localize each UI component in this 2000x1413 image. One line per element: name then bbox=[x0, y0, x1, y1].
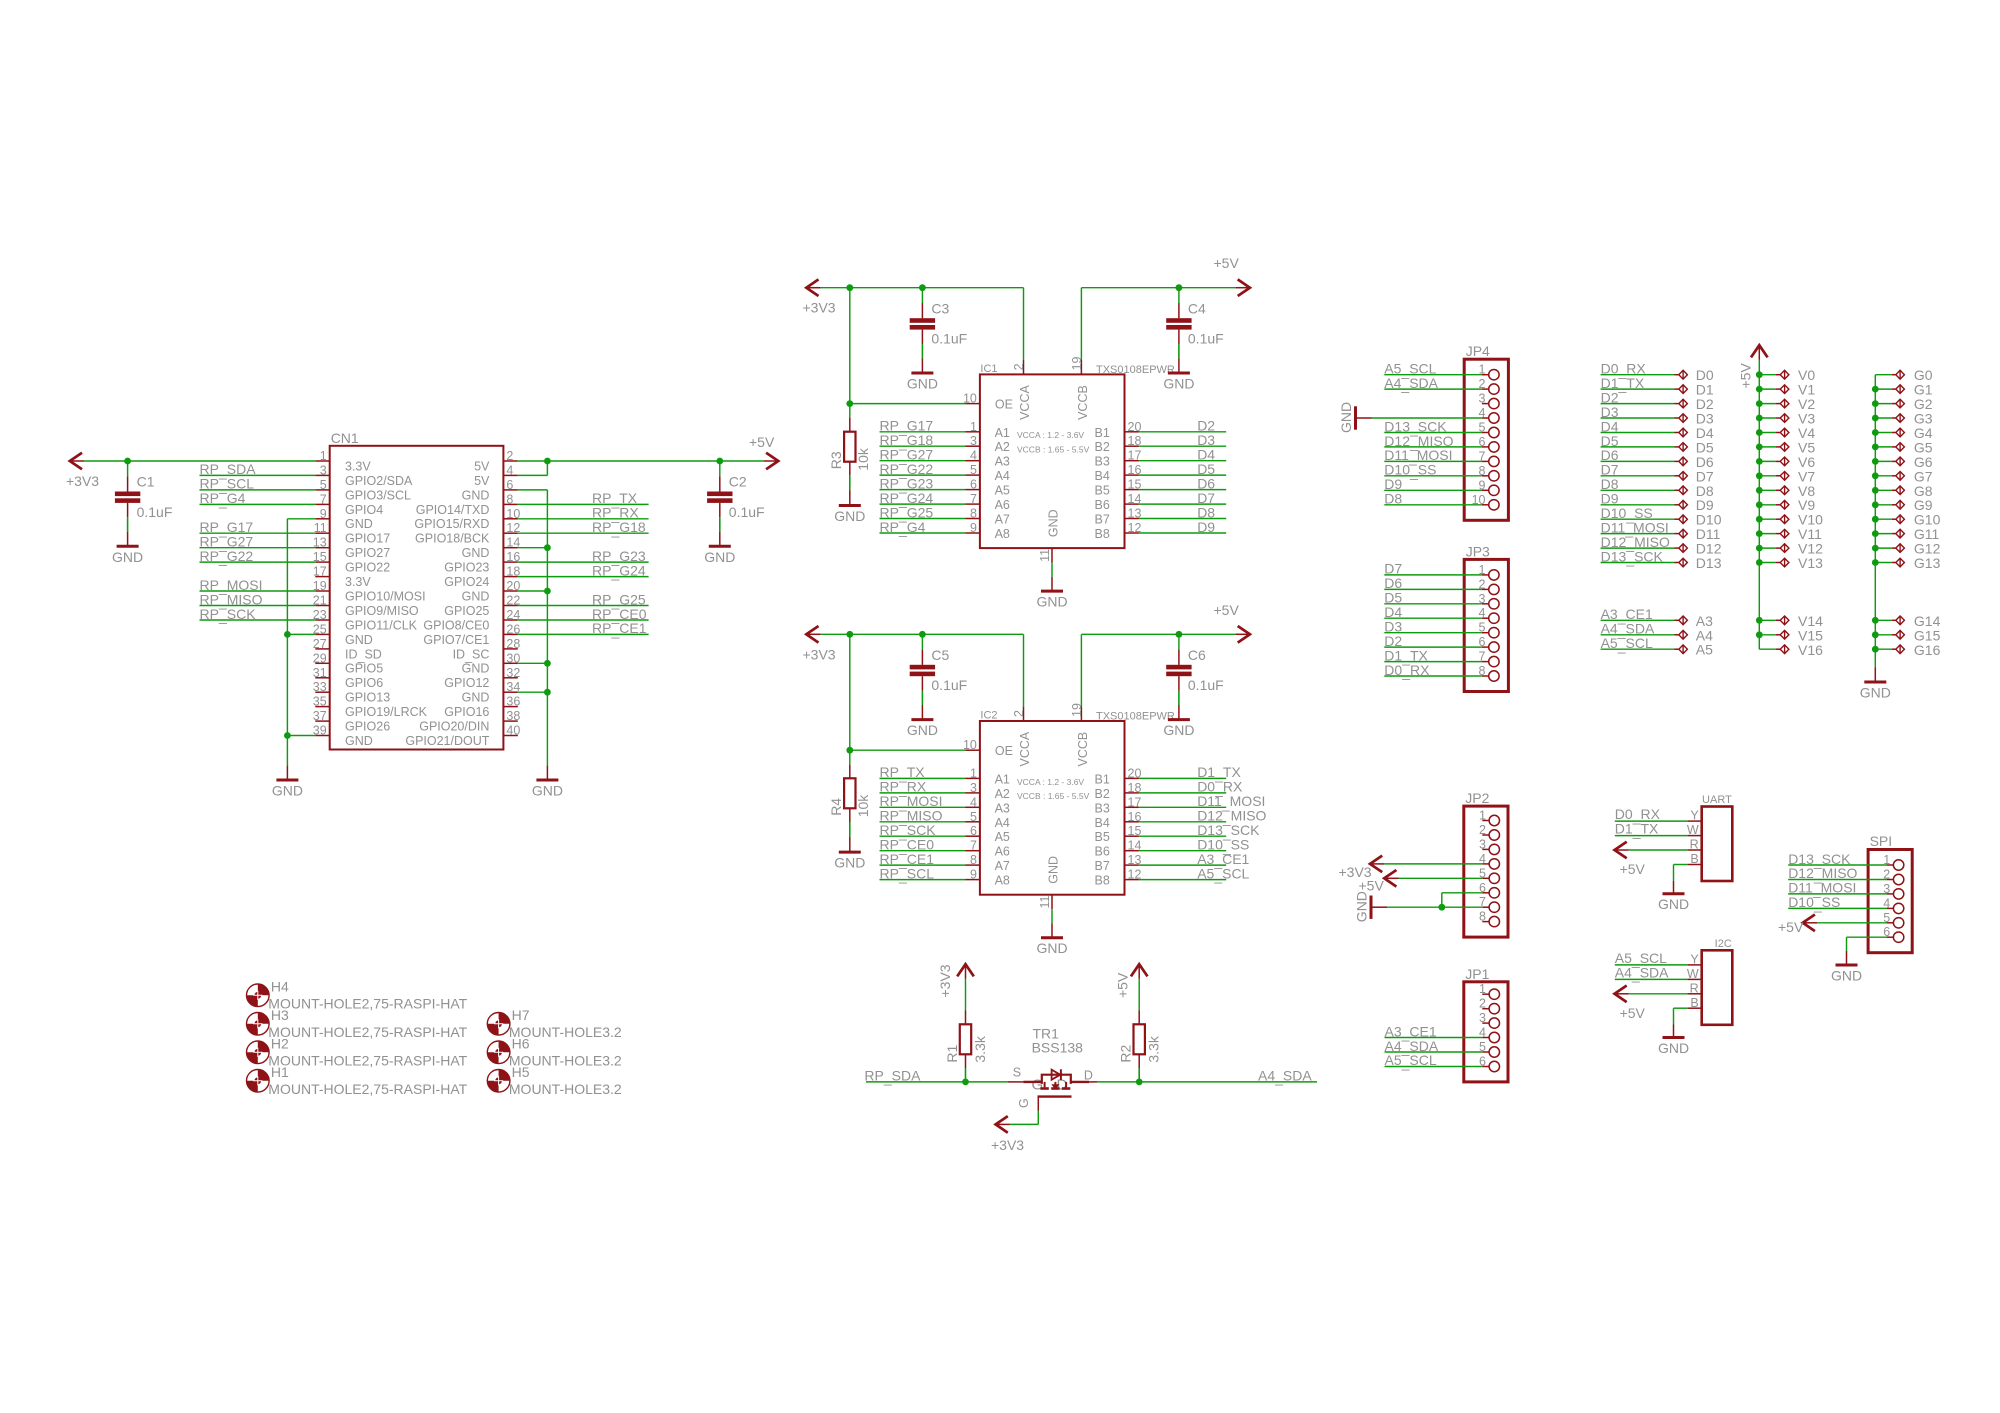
net label RP_G24 wire to IC1 pin A6 bbox=[880, 490, 966, 508]
wire right GND trunk CN1 pins 6 14 20 30 34 bbox=[518, 490, 548, 780]
svg-text:11: 11 bbox=[1038, 895, 1052, 908]
svg-text:GND: GND bbox=[1163, 722, 1194, 738]
net label D10_SS wire from IC2 pin B6 bbox=[1139, 837, 1249, 855]
svg-text:A1: A1 bbox=[995, 426, 1010, 440]
svg-text:Y: Y bbox=[1690, 809, 1699, 823]
net label D9 wire from IC1 pin B8 bbox=[1139, 519, 1226, 535]
svg-text:GND: GND bbox=[272, 783, 303, 799]
net label D3 wire to JP3 pin 5 bbox=[1384, 619, 1482, 635]
power +5V arrow to I2C pin R bbox=[1615, 986, 1688, 1021]
svg-text:29: 29 bbox=[313, 651, 327, 665]
capacitor C4 0.1uF bbox=[1166, 288, 1224, 373]
svg-text:+5V: +5V bbox=[1214, 602, 1240, 618]
net label D10_SS wire to JP4 pin 8 bbox=[1384, 462, 1482, 480]
svg-text:W: W bbox=[1687, 967, 1699, 981]
pin G7 bbox=[1872, 468, 1933, 484]
net label D9 wire to JP4 pin 9 bbox=[1384, 476, 1482, 492]
mount hole H6 bbox=[487, 1036, 622, 1069]
svg-text:C5: C5 bbox=[931, 647, 949, 663]
net label D0_RX to pin D0 bbox=[1601, 361, 1714, 384]
junction CN1 pin 34 bbox=[544, 689, 551, 696]
net label A4_SDA to pin A4 bbox=[1601, 621, 1714, 644]
net label D11_MOSI wire to SPI pin 3 bbox=[1788, 880, 1886, 898]
svg-text:D10_SS: D10_SS bbox=[1788, 894, 1840, 912]
svg-text:GND: GND bbox=[907, 722, 938, 738]
svg-text:SPI: SPI bbox=[1870, 833, 1893, 849]
wire +5V rail to IC2 pin 19 VCCB bbox=[1081, 634, 1235, 706]
svg-text:A7: A7 bbox=[995, 513, 1010, 527]
power +3V3 arrow above R1 bbox=[937, 964, 974, 997]
wire +5V rail to IC1 pin 19 VCCB bbox=[1081, 288, 1235, 360]
pin V4 bbox=[1756, 425, 1815, 441]
svg-text:GPIO21/DOUT: GPIO21/DOUT bbox=[405, 734, 489, 748]
svg-text:35: 35 bbox=[313, 695, 327, 709]
svg-text:GND: GND bbox=[462, 488, 490, 502]
ground GND at JP4 pin 4 bbox=[1338, 402, 1372, 433]
svg-text:27: 27 bbox=[313, 637, 327, 651]
svg-text:6: 6 bbox=[506, 478, 513, 492]
net label D3 wire from IC1 pin B2 bbox=[1139, 432, 1226, 448]
svg-text:C2: C2 bbox=[729, 474, 747, 490]
pin G1 bbox=[1872, 382, 1933, 398]
net label D7 wire to JP3 pin 1 bbox=[1384, 561, 1482, 577]
svg-text:38: 38 bbox=[506, 709, 520, 723]
junction cap on +5V rail bbox=[1176, 284, 1183, 291]
junction A4_SDA at R2 bbox=[1136, 1079, 1143, 1086]
pin G11 bbox=[1872, 526, 1940, 542]
svg-text:0.1uF: 0.1uF bbox=[931, 677, 967, 693]
svg-text:G: G bbox=[1017, 1098, 1031, 1108]
svg-text:GPIO20/DIN: GPIO20/DIN bbox=[419, 720, 489, 734]
net label RP_MISO wire to CN1 pin 21 bbox=[200, 591, 316, 609]
pin V11 bbox=[1756, 526, 1822, 542]
wire +5V to SPI pin 5 bbox=[1817, 922, 1887, 924]
net label D4 wire to JP3 pin 4 bbox=[1384, 604, 1482, 620]
svg-text:GPIO14/TXD: GPIO14/TXD bbox=[416, 503, 490, 517]
svg-text:GPIO12: GPIO12 bbox=[444, 676, 489, 690]
svg-text:1: 1 bbox=[970, 420, 977, 434]
wire +5V to JP2 pin 5 bbox=[1399, 877, 1483, 879]
svg-text:B3: B3 bbox=[1095, 801, 1110, 815]
ground GND below R4 bbox=[834, 852, 865, 871]
svg-text:S: S bbox=[1013, 1065, 1021, 1079]
net label A3_CE1 wire from IC2 pin B7 bbox=[1139, 851, 1250, 869]
power +3V3 arrow at TR1 gate bbox=[991, 1116, 1024, 1153]
pin G2 bbox=[1872, 396, 1933, 412]
svg-text:H4: H4 bbox=[271, 979, 289, 995]
svg-text:A2: A2 bbox=[995, 440, 1010, 454]
net label D1_TX wire from IC2 pin B1 bbox=[1139, 764, 1242, 782]
pin V13 bbox=[1756, 555, 1823, 571]
svg-text:D13_SCK: D13_SCK bbox=[1601, 548, 1664, 566]
svg-text:VCCA: VCCA bbox=[1018, 731, 1032, 766]
resistor R3 10k pull-up on OE bbox=[828, 432, 871, 506]
junction CN1 pin 4 riser bbox=[544, 458, 551, 465]
net label D10_SS to pin D10 bbox=[1601, 505, 1722, 528]
net label D11_MOSI to pin D11 bbox=[1601, 519, 1721, 542]
pin G15 bbox=[1872, 627, 1941, 643]
svg-text:3: 3 bbox=[1479, 837, 1486, 851]
svg-text:TXS0108EPWR: TXS0108EPWR bbox=[1096, 711, 1175, 723]
power +3V3 arrow left of IC1 rail bbox=[803, 279, 836, 315]
wire JP4 pin 4 to GND bbox=[1372, 417, 1482, 419]
net label D6 wire from IC1 pin B5 bbox=[1139, 475, 1226, 491]
junction JP2 GND branch bbox=[1438, 904, 1445, 911]
svg-text:GND: GND bbox=[112, 549, 143, 565]
svg-text:GPIO6: GPIO6 bbox=[345, 676, 383, 690]
net label D12_MISO wire to JP4 pin 6 bbox=[1384, 433, 1482, 451]
net label RP_MOSI wire to CN1 pin 19 bbox=[200, 577, 316, 595]
svg-text:C4: C4 bbox=[1188, 300, 1206, 316]
svg-text:0.1uF: 0.1uF bbox=[137, 504, 173, 520]
svg-text:+3V3: +3V3 bbox=[803, 300, 836, 316]
mount hole H2 bbox=[246, 1036, 467, 1069]
svg-text:8: 8 bbox=[1479, 910, 1486, 924]
svg-text:RP_G24: RP_G24 bbox=[592, 562, 646, 580]
pin G16 bbox=[1872, 642, 1941, 658]
junction cap on +3V3 rail bbox=[919, 284, 926, 291]
net label A5_SCL wire from IC2 pin B8 bbox=[1139, 865, 1250, 883]
svg-text:GPIO8/CE0: GPIO8/CE0 bbox=[423, 618, 489, 632]
svg-text:JP4: JP4 bbox=[1466, 343, 1490, 359]
svg-text:+5V: +5V bbox=[1214, 255, 1240, 271]
pin V5 bbox=[1756, 439, 1815, 455]
svg-text:R3: R3 bbox=[828, 451, 844, 469]
svg-text:GND: GND bbox=[1860, 685, 1891, 701]
svg-text:GND: GND bbox=[1338, 402, 1354, 433]
ground GND below IC2 bbox=[1036, 938, 1067, 957]
level shifter IC1 TXS0108EPWR bbox=[963, 356, 1175, 562]
svg-text:+5V: +5V bbox=[1778, 919, 1804, 935]
svg-text:JP2: JP2 bbox=[1465, 790, 1489, 806]
svg-text:BSS138: BSS138 bbox=[1032, 1040, 1084, 1056]
wire UART pin B to ground bbox=[1674, 865, 1688, 894]
svg-text:VCCB: VCCB bbox=[1076, 385, 1090, 420]
ground GND below G pins bbox=[1860, 682, 1891, 701]
ground GND below I2C bbox=[1658, 1038, 1689, 1057]
connector CN1 Raspberry Pi 40-pin header bbox=[313, 430, 521, 750]
net label A5_SCL wire to JP4 pin 1 bbox=[1384, 361, 1482, 379]
svg-text:GND: GND bbox=[1163, 376, 1194, 392]
svg-text:9: 9 bbox=[970, 521, 977, 535]
resistor R2 3.3k pull-up bbox=[1118, 1024, 1162, 1082]
svg-text:H5: H5 bbox=[512, 1064, 530, 1080]
net label D2 to pin D2 bbox=[1601, 389, 1714, 412]
svg-text:3: 3 bbox=[970, 434, 977, 448]
svg-text:GPIO4: GPIO4 bbox=[345, 503, 383, 517]
svg-text:MOUNT-HOLE2,75-RASPI-HAT: MOUNT-HOLE2,75-RASPI-HAT bbox=[268, 1052, 467, 1068]
net label A5_SCL wire to JP1 pin 6 bbox=[1385, 1052, 1483, 1070]
net label RP_G4 wire to IC1 pin A8 bbox=[880, 519, 966, 537]
svg-text:5V: 5V bbox=[474, 474, 490, 488]
svg-text:D0_RX: D0_RX bbox=[1384, 662, 1430, 680]
svg-text:VCCB : 1.65 - 5.5V: VCCB : 1.65 - 5.5V bbox=[1017, 791, 1090, 801]
svg-text:0.1uF: 0.1uF bbox=[1188, 677, 1224, 693]
net label A4_SDA wire to JP1 pin 5 bbox=[1385, 1038, 1483, 1056]
wire TR1 gate to +3V3 bbox=[1010, 1111, 1038, 1125]
svg-text:3: 3 bbox=[970, 781, 977, 795]
net label RP_TX wire to IC2 pin A1 bbox=[880, 764, 966, 782]
svg-text:H6: H6 bbox=[512, 1036, 530, 1052]
svg-text:B7: B7 bbox=[1095, 513, 1110, 527]
junction RP_SDA at R1 bbox=[962, 1079, 969, 1086]
junction CN1 pin 20 bbox=[544, 588, 551, 595]
svg-text:4: 4 bbox=[970, 795, 977, 809]
svg-text:GND: GND bbox=[462, 590, 490, 604]
svg-text:+5V: +5V bbox=[1620, 861, 1646, 877]
wire +3V3 rail to IC2 pin 2 VCCA bbox=[821, 634, 1024, 706]
pin V8 bbox=[1756, 483, 1815, 499]
svg-text:5V: 5V bbox=[474, 459, 490, 473]
svg-text:3: 3 bbox=[1479, 392, 1486, 406]
svg-text:+5V: +5V bbox=[1115, 972, 1131, 998]
svg-text:W: W bbox=[1687, 823, 1699, 837]
ground GND at JP2 pin 7 bbox=[1354, 891, 1388, 922]
wire IC2 pin 11 to ground bbox=[1051, 909, 1053, 938]
svg-text:2: 2 bbox=[506, 449, 513, 463]
svg-text:1: 1 bbox=[1479, 809, 1486, 823]
net label RP_CE0 wire from CN1 pin 24 bbox=[518, 606, 649, 624]
net label RP_G18 wire from CN1 pin 12 bbox=[518, 519, 649, 537]
svg-text:RP_SCL: RP_SCL bbox=[880, 865, 935, 883]
svg-text:5: 5 bbox=[970, 463, 977, 477]
svg-text:GND: GND bbox=[1036, 594, 1067, 610]
net label RP_SCL wire to CN1 pin 5 bbox=[200, 476, 316, 494]
svg-text:B5: B5 bbox=[1095, 484, 1110, 498]
net label RP_G4 wire to CN1 pin 7 bbox=[200, 490, 316, 508]
svg-text:A6: A6 bbox=[995, 498, 1010, 512]
svg-text:B6: B6 bbox=[1095, 498, 1110, 512]
svg-text:GND: GND bbox=[907, 376, 938, 392]
svg-text:7: 7 bbox=[320, 492, 327, 506]
svg-text:GPIO22: GPIO22 bbox=[345, 561, 390, 575]
svg-text:GPIO16: GPIO16 bbox=[444, 705, 489, 719]
svg-text:+5V: +5V bbox=[1738, 363, 1754, 389]
ground GND below CN1 right bbox=[532, 780, 563, 799]
power +5V arrow at JP2 pin 5 bbox=[1359, 870, 1399, 894]
net label D0_RX wire to UART pin Y bbox=[1615, 806, 1688, 824]
net label D1_TX to pin D1 bbox=[1601, 375, 1714, 398]
net label A3_CE1 wire to JP1 pin 4 bbox=[1385, 1023, 1483, 1041]
junction OE trunk on +3V3 rail bbox=[846, 631, 853, 638]
svg-text:H3: H3 bbox=[271, 1007, 289, 1023]
net label RP_G17 wire to CN1 pin 11 bbox=[200, 519, 316, 537]
svg-text:V16: V16 bbox=[1798, 642, 1823, 658]
svg-text:CN1: CN1 bbox=[331, 430, 359, 446]
svg-text:GND: GND bbox=[345, 517, 373, 531]
svg-text:3.3V: 3.3V bbox=[345, 459, 371, 473]
svg-text:MOUNT-HOLE2,75-RASPI-HAT: MOUNT-HOLE2,75-RASPI-HAT bbox=[268, 995, 467, 1011]
net label RP_SDA wire to CN1 pin 3 bbox=[200, 461, 316, 479]
pin V6 bbox=[1756, 454, 1815, 470]
net label D12_MISO wire to SPI pin 2 bbox=[1788, 865, 1886, 883]
capacitor C1 0.1uF bbox=[115, 461, 173, 546]
junction CN1 pin 14 bbox=[544, 544, 551, 551]
svg-text:A8: A8 bbox=[995, 874, 1010, 888]
wire JP2 pin 7 and pin 6 to GND bbox=[1387, 893, 1482, 907]
svg-text:10k: 10k bbox=[855, 794, 871, 818]
svg-text:B4: B4 bbox=[1095, 816, 1110, 830]
svg-text:6: 6 bbox=[970, 824, 977, 838]
svg-text:A3: A3 bbox=[995, 801, 1010, 815]
capacitor C5 0.1uF bbox=[910, 634, 968, 719]
level shifter IC2 TXS0108EPWR bbox=[963, 703, 1175, 909]
pin V15 bbox=[1756, 627, 1823, 643]
net label D8 wire to JP4 pin 10 bbox=[1384, 491, 1482, 507]
svg-text:H1: H1 bbox=[271, 1064, 289, 1080]
net label RP_SCK wire to IC2 pin A5 bbox=[880, 822, 966, 840]
svg-text:RP_G4: RP_G4 bbox=[880, 519, 926, 537]
wire +5V rail from CN1 pin 2 bbox=[518, 460, 764, 462]
net label D6 to pin D6 bbox=[1601, 447, 1714, 470]
svg-text:A4_SDA: A4_SDA bbox=[1258, 1067, 1312, 1085]
pin G6 bbox=[1872, 454, 1933, 470]
svg-text:GND: GND bbox=[1036, 940, 1067, 956]
pin G8 bbox=[1872, 483, 1933, 499]
svg-text:A1: A1 bbox=[995, 772, 1010, 786]
net label D5 wire to JP3 pin 3 bbox=[1384, 590, 1482, 606]
connector JP3 bbox=[1464, 543, 1508, 691]
svg-text:GPIO24: GPIO24 bbox=[444, 575, 489, 589]
svg-text:32: 32 bbox=[506, 666, 520, 680]
svg-text:GPIO18/BCK: GPIO18/BCK bbox=[415, 532, 490, 546]
svg-text:VCCB : 1.65 - 5.5V: VCCB : 1.65 - 5.5V bbox=[1017, 445, 1090, 455]
svg-text:10k: 10k bbox=[855, 447, 871, 471]
pin G9 bbox=[1872, 497, 1933, 513]
ground GND below IC1 bbox=[1036, 591, 1067, 610]
svg-text:B: B bbox=[1690, 852, 1698, 866]
svg-text:40: 40 bbox=[506, 724, 520, 738]
net label RP_RX wire from CN1 pin 10 bbox=[518, 505, 649, 523]
wire +3V3 trunk to IC2 OE and R4 bbox=[850, 634, 966, 778]
junction IC2 OE row bbox=[846, 747, 853, 754]
svg-text:V13: V13 bbox=[1798, 555, 1823, 571]
net label D10_SS wire to SPI pin 4 bbox=[1788, 894, 1886, 912]
svg-text:GPIO2/SDA: GPIO2/SDA bbox=[345, 474, 413, 488]
ground GND below C1 bbox=[112, 546, 143, 565]
svg-text:GPIO26: GPIO26 bbox=[345, 720, 390, 734]
wire I2C pin B to ground bbox=[1674, 1008, 1688, 1037]
svg-text:3.3k: 3.3k bbox=[972, 1035, 988, 1062]
net label RP_CE1 wire to IC2 pin A7 bbox=[880, 851, 966, 869]
svg-text:B2: B2 bbox=[1095, 787, 1110, 801]
svg-text:1: 1 bbox=[1479, 982, 1486, 996]
net label A5_SCL wire to I2C pin Y bbox=[1615, 950, 1688, 968]
svg-text:A5: A5 bbox=[995, 484, 1010, 498]
svg-text:GPIO27: GPIO27 bbox=[345, 546, 390, 560]
power +3V3 arrow at JP2 pin 4 bbox=[1339, 856, 1385, 881]
junction cap on +5V rail bbox=[1176, 631, 1183, 638]
net label RP_MISO wire to IC2 pin A4 bbox=[880, 808, 966, 826]
svg-text:C3: C3 bbox=[931, 300, 949, 316]
svg-text:3: 3 bbox=[320, 463, 327, 477]
svg-text:GND: GND bbox=[462, 691, 490, 705]
connector SPI bbox=[1868, 833, 1912, 953]
svg-text:GND: GND bbox=[1831, 968, 1862, 984]
svg-text:GPIO19/LRCK: GPIO19/LRCK bbox=[345, 705, 428, 719]
connector JP1 bbox=[1464, 966, 1508, 1082]
svg-text:5: 5 bbox=[970, 810, 977, 824]
svg-text:A5_SCL: A5_SCL bbox=[1197, 865, 1249, 883]
svg-text:1: 1 bbox=[970, 766, 977, 780]
svg-text:+3V3: +3V3 bbox=[803, 646, 836, 662]
net label D9 to pin D9 bbox=[1601, 491, 1714, 514]
net label D3 to pin D3 bbox=[1601, 404, 1714, 427]
svg-text:B: B bbox=[1690, 996, 1698, 1010]
svg-text:VCCA : 1.2 - 3.6V: VCCA : 1.2 - 3.6V bbox=[1017, 430, 1084, 440]
wire +3V3 to CN1 pin 1 bbox=[84, 460, 315, 462]
net label RP_G27 wire to CN1 pin 13 bbox=[200, 534, 316, 552]
svg-text:VCCB: VCCB bbox=[1076, 732, 1090, 767]
net label RP_SCL wire to IC2 pin A8 bbox=[880, 865, 966, 883]
wire +3V3 to JP2 pin 4 bbox=[1384, 863, 1482, 865]
svg-text:0.1uF: 0.1uF bbox=[729, 504, 765, 520]
svg-text:8: 8 bbox=[506, 492, 513, 506]
svg-text:GPIO17: GPIO17 bbox=[345, 532, 390, 546]
net label D13_SCK wire to SPI pin 1 bbox=[1788, 851, 1886, 869]
svg-text:GND: GND bbox=[1047, 856, 1061, 884]
pin G10 bbox=[1872, 512, 1941, 528]
wire IC1 pin 11 to ground bbox=[1051, 563, 1053, 592]
power +5V arrow right of IC2 rail bbox=[1214, 602, 1250, 643]
net label D4 to pin D4 bbox=[1601, 418, 1714, 441]
ground GND below C2 bbox=[704, 546, 735, 565]
svg-text:A5_SCL: A5_SCL bbox=[1385, 1052, 1437, 1070]
net label D6 wire to JP3 pin 2 bbox=[1384, 575, 1482, 591]
svg-text:GND: GND bbox=[345, 633, 373, 647]
svg-text:B8: B8 bbox=[1095, 527, 1110, 541]
svg-text:GPIO5: GPIO5 bbox=[345, 662, 383, 676]
junction cap on +3V3 rail bbox=[919, 631, 926, 638]
mount hole H4 bbox=[246, 979, 467, 1012]
pin V9 bbox=[1756, 497, 1815, 513]
wire SPI pin 6 to ground bbox=[1847, 937, 1887, 965]
svg-text:GPIO23: GPIO23 bbox=[444, 561, 489, 575]
svg-text:GND: GND bbox=[1658, 896, 1689, 912]
pin V2 bbox=[1756, 396, 1815, 412]
connector I2C bbox=[1687, 938, 1732, 1025]
svg-text:GPIO15/RXD: GPIO15/RXD bbox=[414, 517, 489, 531]
wire GND G-pin rail bbox=[1874, 375, 1876, 682]
svg-text:33: 33 bbox=[313, 680, 327, 694]
svg-text:0.1uF: 0.1uF bbox=[1188, 331, 1224, 347]
pin V3 bbox=[1756, 411, 1815, 427]
net label A4_SDA wire bbox=[1097, 1067, 1317, 1085]
net label D2 wire from IC1 pin B1 bbox=[1139, 418, 1226, 434]
svg-text:1: 1 bbox=[320, 449, 327, 463]
junction OE trunk on +3V3 rail bbox=[846, 284, 853, 291]
svg-text:9: 9 bbox=[970, 868, 977, 882]
svg-text:UART: UART bbox=[1702, 794, 1732, 806]
svg-text:G13: G13 bbox=[1914, 555, 1941, 571]
svg-text:37: 37 bbox=[313, 709, 327, 723]
svg-text:9: 9 bbox=[320, 507, 327, 521]
wire +5V to R2 bbox=[1138, 979, 1140, 1025]
svg-text:3: 3 bbox=[1479, 1011, 1486, 1025]
wire +5V V-pin rail bbox=[1758, 360, 1760, 650]
svg-text:R4: R4 bbox=[828, 798, 844, 816]
svg-text:H2: H2 bbox=[271, 1036, 289, 1052]
svg-text:C1: C1 bbox=[137, 474, 155, 490]
net label RP_TX wire from CN1 pin 8 bbox=[518, 490, 649, 508]
svg-text:GND: GND bbox=[834, 508, 865, 524]
svg-text:GPIO3/SCL: GPIO3/SCL bbox=[345, 488, 411, 502]
svg-text:A4: A4 bbox=[995, 469, 1010, 483]
svg-text:A4: A4 bbox=[995, 816, 1010, 830]
junction CN1 pin 39 bbox=[284, 732, 291, 739]
svg-text:3.3k: 3.3k bbox=[1146, 1035, 1162, 1062]
svg-text:GND: GND bbox=[1658, 1040, 1689, 1056]
